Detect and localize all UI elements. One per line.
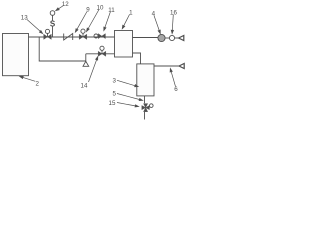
svg-text:6: 6 (174, 86, 178, 93)
svg-text:16: 16 (170, 9, 177, 16)
svg-text:15: 15 (109, 100, 116, 107)
svg-text:11: 11 (108, 7, 115, 14)
svg-text:13: 13 (21, 14, 28, 21)
svg-text:3: 3 (112, 77, 116, 84)
svg-text:5: 5 (112, 90, 116, 97)
svg-text:2: 2 (35, 80, 39, 87)
svg-text:10: 10 (97, 4, 104, 11)
svg-text:12: 12 (62, 1, 69, 8)
svg-text:S: S (50, 20, 56, 29)
svg-text:1: 1 (129, 9, 133, 16)
svg-text:9: 9 (86, 6, 90, 13)
svg-text:4: 4 (152, 10, 156, 17)
svg-text:14: 14 (81, 82, 88, 89)
